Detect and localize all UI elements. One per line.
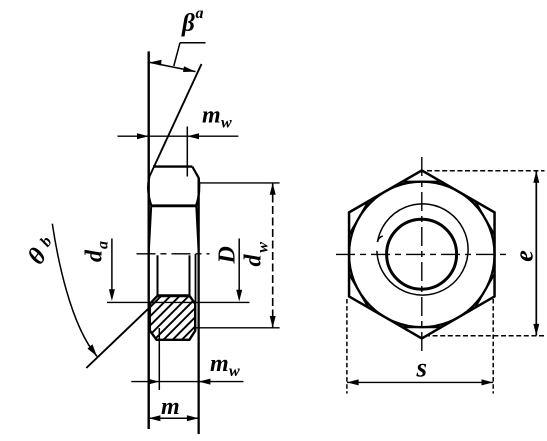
e dimension line xyxy=(535,171,537,336)
theta slant line (bearing face cone) xyxy=(86,300,157,368)
svg-text:m: m xyxy=(210,351,229,377)
extension line C (right face plane) xyxy=(197,178,199,435)
beta arc arrowhead left xyxy=(150,60,162,66)
svg-text:m: m xyxy=(161,394,180,420)
hole wall right xyxy=(189,255,191,295)
d_a arrow xyxy=(111,239,113,292)
nut right chamfer arc xyxy=(196,178,199,206)
svg-text:a: a xyxy=(95,241,112,249)
hole bottom thick line xyxy=(157,294,191,297)
beta leader horizontal xyxy=(180,42,206,44)
m dimension xyxy=(149,417,199,419)
d_w dimension line xyxy=(272,183,274,328)
svg-text:w: w xyxy=(221,115,232,132)
hexagon outline xyxy=(349,170,495,338)
nut hex corner line xyxy=(151,204,197,207)
beta arc arrowhead right xyxy=(183,66,196,72)
label d_w xyxy=(240,242,271,267)
label theta^b xyxy=(23,231,61,269)
section hatch lines xyxy=(103,285,264,345)
section hatch outline xyxy=(150,296,195,340)
corner chamfer chord lower-left xyxy=(349,274,369,308)
hole wall left xyxy=(157,255,159,295)
hex horizontal centre line xyxy=(336,253,508,255)
hex vertical centre line xyxy=(421,157,423,352)
corner chamfer chord top xyxy=(402,181,441,183)
m_w bottom dimension xyxy=(131,381,243,383)
beta angle arc xyxy=(150,62,196,71)
svg-text:w: w xyxy=(254,242,271,253)
d_w extension top xyxy=(200,182,280,184)
nut top-right chamfer edge xyxy=(192,167,198,178)
svg-text:a: a xyxy=(196,5,204,22)
svg-text:m: m xyxy=(202,103,221,129)
s dimension line xyxy=(347,381,493,383)
theta leader arc xyxy=(52,224,97,357)
svg-text:d: d xyxy=(240,254,266,267)
svg-text:e: e xyxy=(510,250,539,262)
nut left chamfer arc xyxy=(148,177,151,206)
svg-text:s: s xyxy=(416,352,428,382)
inscribed chamfer circle xyxy=(349,182,495,328)
extension line B' (top m_w inner) xyxy=(186,127,188,177)
svg-text:β: β xyxy=(181,10,195,37)
thread major line (d_a / D datum) xyxy=(107,301,250,303)
svg-text:w: w xyxy=(229,363,240,380)
svg-text:D: D xyxy=(214,246,240,264)
label D xyxy=(214,246,240,264)
label d_a xyxy=(82,241,112,262)
d_w extension bottom xyxy=(196,327,280,329)
s extension right xyxy=(492,299,494,394)
e extension bottom xyxy=(425,335,545,337)
m_w top dimension xyxy=(118,135,239,137)
corner chamfer chord bottom xyxy=(402,326,441,328)
corner chamfer chord upper-left xyxy=(349,201,369,235)
extension line A (left/bearing face plane) xyxy=(147,51,149,429)
centre line (left view axis) xyxy=(137,253,210,255)
e extension top xyxy=(427,170,545,172)
s extension left xyxy=(346,299,348,394)
thread arc (major dia) xyxy=(377,204,468,295)
beta leader diagonal xyxy=(174,43,180,66)
corner chamfer chord lower-right xyxy=(475,274,495,308)
nut left cone edge xyxy=(149,206,151,252)
beta chamfer slant line xyxy=(149,64,201,177)
nut right cone edge xyxy=(196,206,198,252)
svg-text:d: d xyxy=(82,249,108,262)
hole circle (minor dia) xyxy=(387,219,457,289)
D arrow xyxy=(238,239,240,292)
theta arc arrowhead xyxy=(88,344,98,356)
nut right hex face edge (section half) xyxy=(195,254,197,304)
extension line B (bottom m_w inner) xyxy=(158,328,160,390)
label e xyxy=(510,250,539,262)
nut top edge xyxy=(153,165,192,167)
corner chamfer chord upper-right xyxy=(475,201,495,235)
